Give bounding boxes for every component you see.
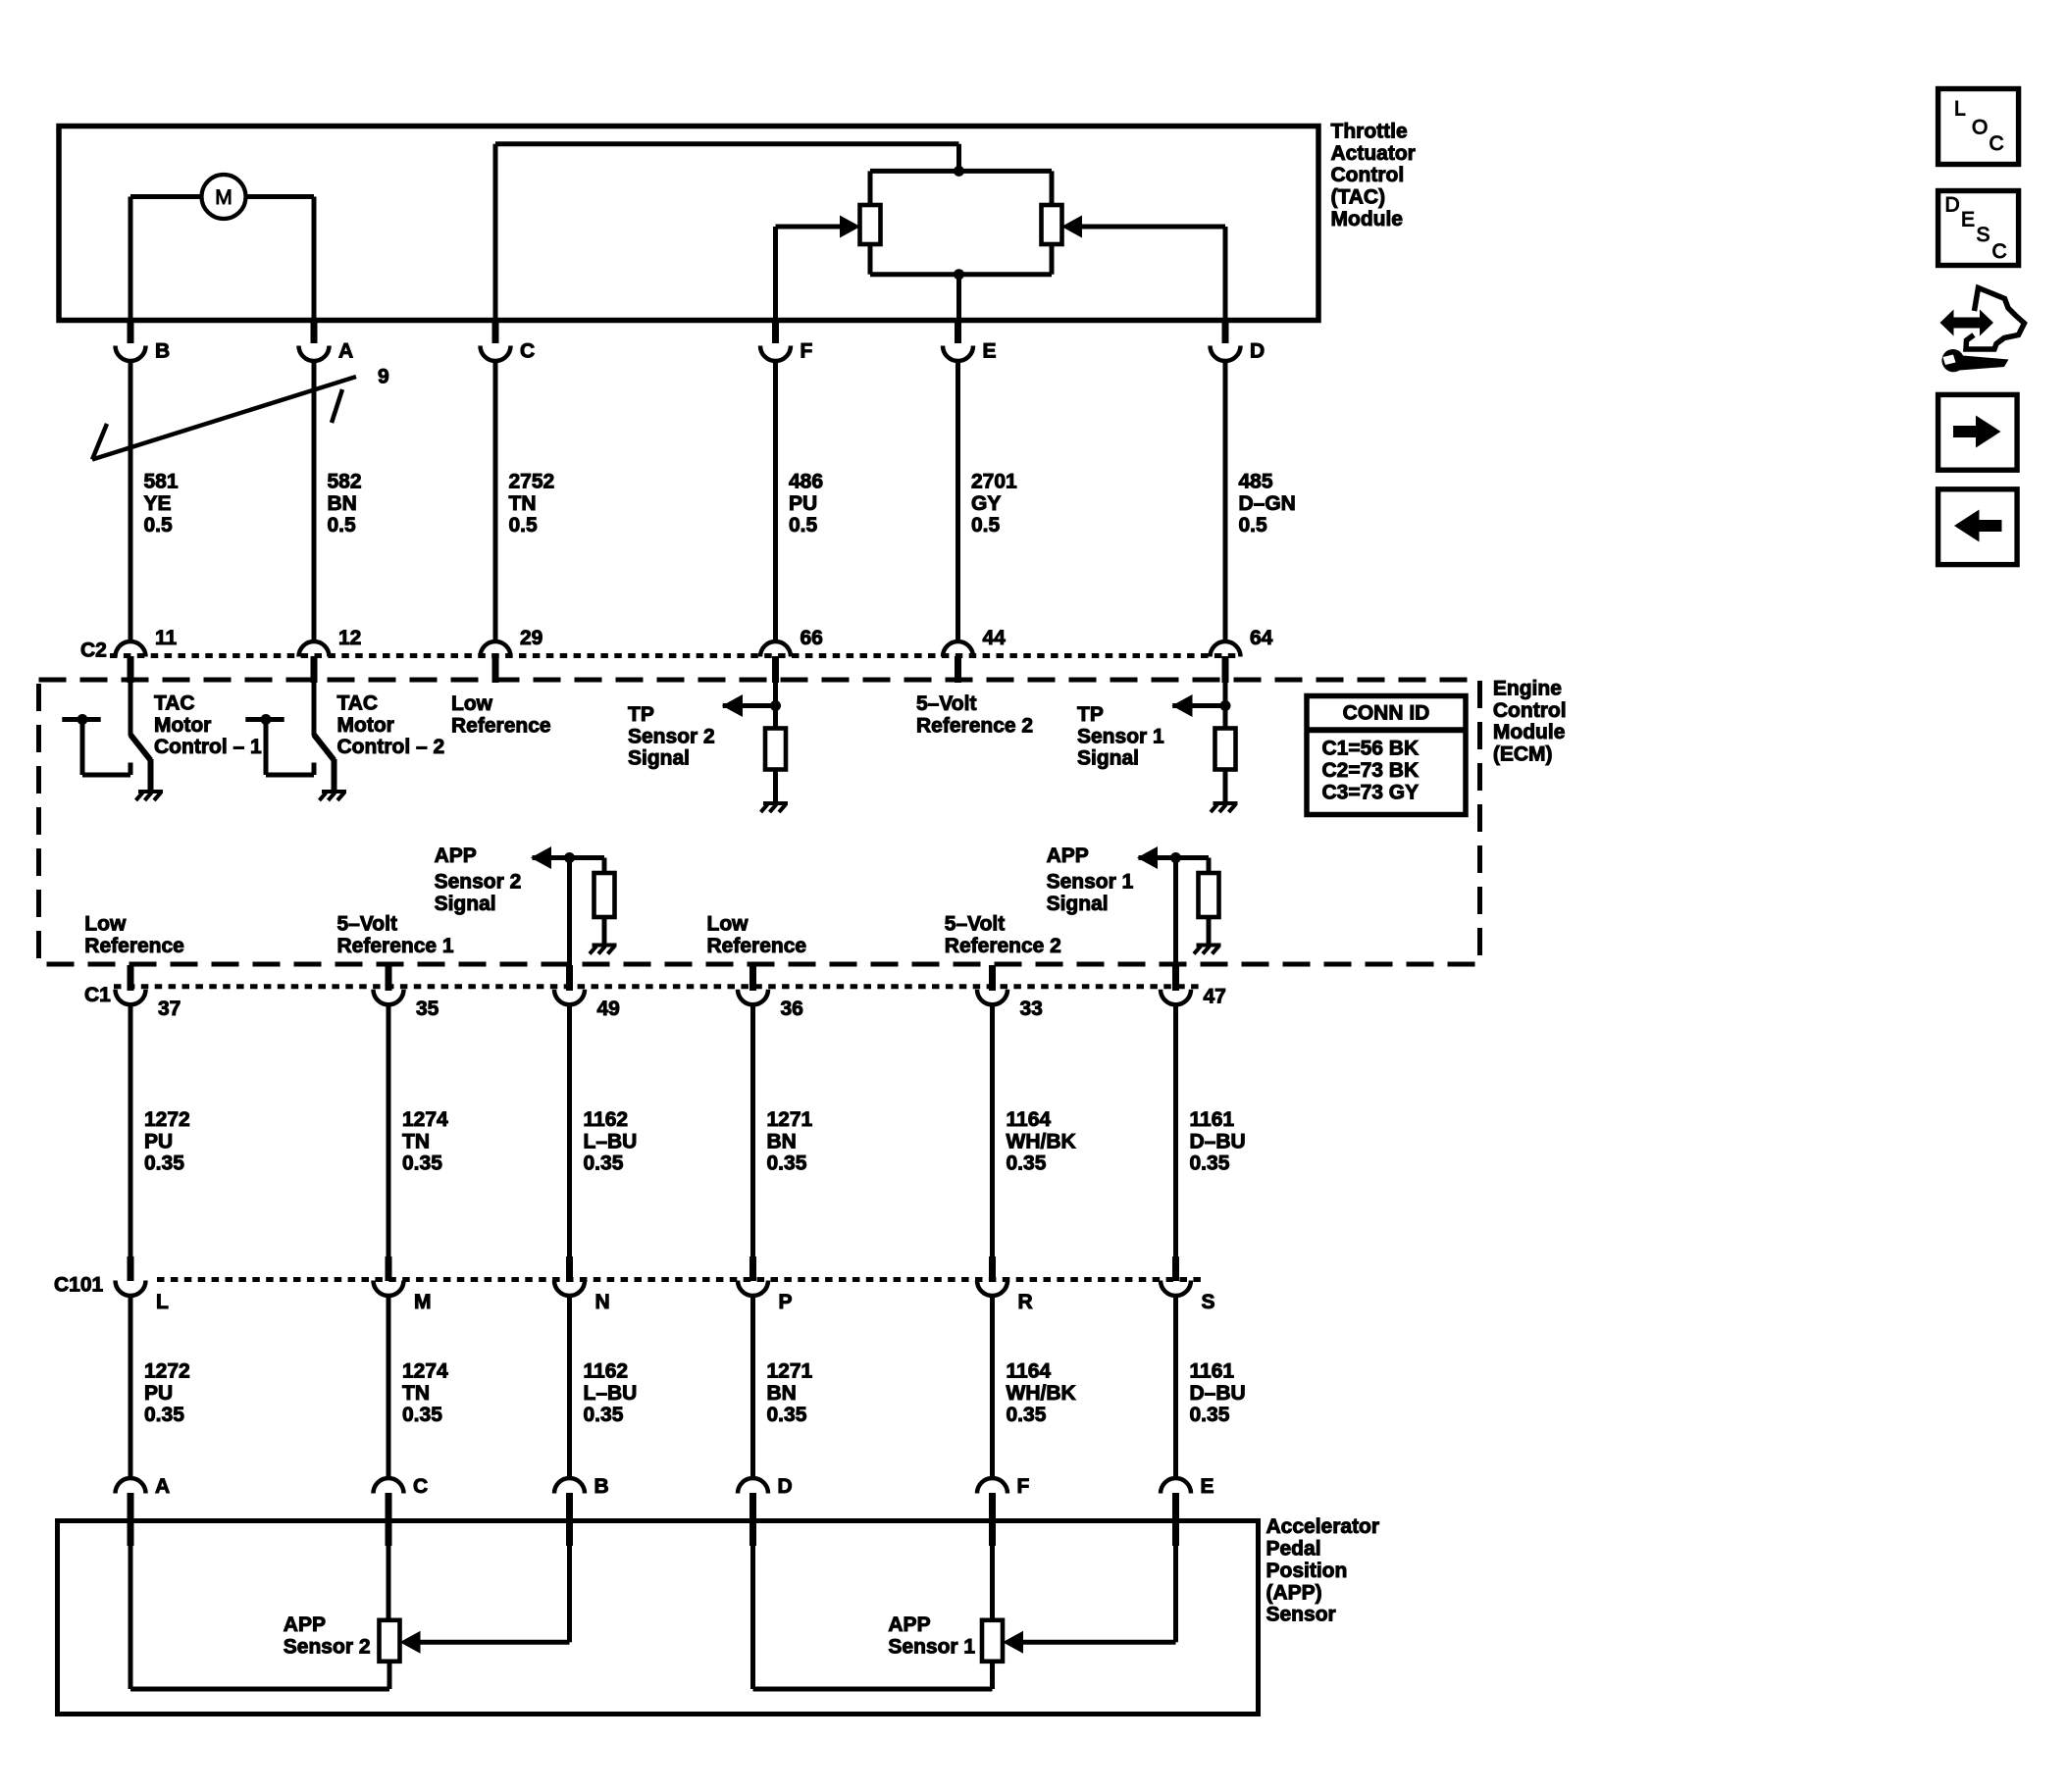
motor M (TAC motor)	[202, 175, 246, 219]
connector line C2	[110, 653, 1239, 658]
node: TP sensor bottom junction	[954, 269, 964, 280]
connector pin 12 (ECM C2)	[299, 627, 362, 683]
wire 485 D to ECM	[1223, 360, 1228, 642]
arrow: APP Sensor 1 wiper	[1003, 1631, 1023, 1654]
connector pin L (C101)	[116, 1256, 170, 1313]
wire: resistor to ground	[1223, 770, 1228, 804]
svg-text:C1=56 BKC2=73 BKC3=73 GY: C1=56 BKC2=73 BKC3=73 GY	[1322, 738, 1420, 804]
resistor: APP Sensor 1 pull-up	[1199, 873, 1219, 917]
wire 582 A to ECM	[312, 360, 317, 642]
svg-text:11: 11	[155, 627, 178, 649]
icon: fullsize view (wrench with arrows)	[1940, 288, 2025, 373]
wire: APP Sensor 1 wiper with arrow	[1023, 1545, 1176, 1642]
svg-text:B: B	[594, 1475, 609, 1498]
svg-text:A: A	[155, 1475, 170, 1498]
svg-text:S: S	[1202, 1291, 1215, 1313]
driver switch: TAC motor control 2	[245, 681, 334, 792]
resistor: APP Sensor 1 potentiometer	[982, 1545, 1003, 1662]
connector pin E (TAC module)	[943, 322, 997, 363]
connector pin N (C101)	[554, 1256, 610, 1313]
wire: APP Sensor 2 wiper with arrow	[421, 1545, 570, 1642]
wire: APP Sensor 2 signal branch	[533, 858, 605, 972]
wire 1162 C101-N to APP sensor pin B	[567, 1295, 572, 1478]
connector pin B (APP sensor)	[554, 1475, 609, 1546]
wire: TP sensor 1 wiper (pin D) with arrow	[1061, 216, 1225, 321]
connector pin 44 (ECM C2)	[943, 627, 1006, 683]
wire 1272 C1-37 to C101-L	[129, 1003, 133, 1257]
svg-text:49: 49	[597, 998, 620, 1020]
connector pin 47 (ECM C1)	[1161, 965, 1226, 1008]
svg-text:F: F	[801, 340, 813, 363]
svg-text:E: E	[1961, 209, 1975, 231]
svg-text:F: F	[1017, 1475, 1030, 1498]
connector pin D (TAC module)	[1211, 322, 1265, 363]
wire: pin C low reference riser	[495, 144, 959, 321]
ground (APP Sensor 2)	[590, 946, 617, 954]
wire 1161 C101-S to APP sensor pin E	[1173, 1295, 1178, 1478]
arrow: TP Sensor 2 signal	[722, 694, 743, 717]
svg-text:O: O	[1972, 117, 1988, 139]
svg-text:66: 66	[801, 627, 823, 649]
connector pin 35 (ECM C1)	[374, 965, 439, 1020]
wire 1164 C101-R to APP sensor pin F	[990, 1295, 995, 1478]
svg-text:47: 47	[1204, 986, 1226, 1008]
connector pin A (APP sensor)	[116, 1475, 171, 1546]
svg-text:64: 64	[1250, 627, 1273, 649]
connector pin 49 (ECM C1)	[554, 965, 620, 1020]
connector pin 66 (ECM C2)	[760, 627, 823, 683]
wire 1164 C1-33 to C101-R	[990, 1003, 995, 1257]
callout 9 (harness)	[92, 366, 389, 460]
ground (APP Sensor 1)	[1194, 946, 1221, 954]
connector pin 36 (ECM C1)	[738, 965, 803, 1020]
svg-text:C: C	[520, 340, 535, 363]
wire: APP Sensor 1 signal branch	[1139, 858, 1210, 972]
resistor: TP sensor 1 element	[1042, 171, 1062, 274]
svg-text:R: R	[1018, 1291, 1033, 1313]
wire 1271 C1-36 to C101-P	[750, 1003, 755, 1257]
connector pin 33 (ECM C1)	[977, 965, 1043, 1020]
svg-text:12: 12	[338, 627, 361, 649]
node: TP sensor top junction	[954, 166, 964, 177]
wire 1271 C101-P to APP sensor pin D	[750, 1295, 755, 1478]
svg-text:M: M	[215, 186, 232, 209]
connector pin S (C101)	[1161, 1256, 1215, 1313]
svg-text:44: 44	[983, 627, 1007, 649]
svg-text:9: 9	[378, 366, 389, 388]
connector pin F (TAC module)	[760, 322, 813, 363]
icon: previous arrow button	[1938, 489, 2018, 565]
Engine Control Module (ECM) box	[39, 680, 1480, 964]
resistor: APP Sensor 2 pull-up	[594, 873, 615, 917]
connector pin C (APP sensor)	[374, 1475, 429, 1546]
svg-text:S: S	[1977, 224, 1990, 246]
arrow: APP Sensor 2 wiper	[400, 1631, 421, 1654]
svg-text:P: P	[779, 1291, 793, 1313]
resistor: TP Sensor 2 pull-down	[765, 729, 786, 770]
svg-text:M: M	[414, 1291, 432, 1313]
svg-text:N: N	[595, 1291, 610, 1313]
CONN ID table	[1307, 696, 1466, 815]
wire: TP Sensor 1 signal into ECM	[1172, 681, 1225, 729]
svg-text:36: 36	[781, 998, 803, 1020]
svg-text:33: 33	[1020, 998, 1043, 1020]
connector pin B (TAC module)	[116, 322, 171, 363]
connector pin E (APP sensor)	[1161, 1475, 1214, 1546]
wire 2752 C to ECM	[493, 360, 498, 642]
svg-text:CONN ID: CONN ID	[1343, 701, 1430, 724]
svg-text:C: C	[413, 1475, 428, 1498]
wire 581 B to ECM	[129, 360, 133, 642]
wire 1162 C1-49 to C101-N	[567, 1003, 572, 1257]
connector line C101	[157, 1277, 1201, 1282]
connector pin A (TAC module)	[299, 322, 354, 363]
wire 1161 C1-47 to C101-S	[1173, 1003, 1178, 1257]
wire: TP Sensor 2 signal into ECM	[723, 681, 776, 729]
svg-text:E: E	[1201, 1475, 1214, 1498]
wire: pin E from bottom junction	[956, 275, 961, 321]
wire 1274 C1-35 to C101-M	[387, 1003, 391, 1257]
svg-text:C1: C1	[84, 984, 111, 1006]
wire 1272 C101-L to APP sensor pin A	[129, 1295, 133, 1478]
wire: resistor to ground	[602, 917, 607, 946]
wire: motor to pin A	[244, 197, 314, 321]
ground (TAC motor control 1)	[136, 792, 164, 800]
resistor: APP Sensor 2 potentiometer	[380, 1545, 400, 1662]
ground (TAC motor control 2)	[320, 792, 347, 800]
TP sensor network top rail	[870, 169, 1052, 174]
svg-text:C2: C2	[80, 640, 107, 662]
wire: APP Sensor 1 low side rail	[753, 1545, 993, 1689]
connector pin D (APP sensor)	[738, 1475, 793, 1546]
svg-text:C: C	[1992, 240, 2007, 263]
icon: next arrow button	[1938, 394, 2018, 470]
driver switch: TAC motor control 1	[62, 681, 150, 792]
arrow: APP Sensor 1 signal	[1137, 846, 1158, 869]
svg-text:C: C	[1989, 132, 2004, 155]
svg-text:29: 29	[520, 627, 542, 649]
svg-text:D: D	[1945, 194, 1960, 217]
connector pin 29 (ECM C2)	[481, 627, 543, 683]
connector pin F (APP sensor)	[977, 1475, 1030, 1546]
svg-text:L: L	[156, 1291, 169, 1313]
arrow: TP Sensor 1 signal	[1172, 694, 1193, 717]
connector pin M (C101)	[374, 1256, 432, 1313]
svg-text:ThrottleActuatorControl(TAC)Mo: ThrottleActuatorControl(TAC)Module	[1331, 121, 1416, 230]
connector line C1	[114, 984, 1201, 989]
wire: TP sensor 2 wiper (pin F) with arrow	[776, 216, 861, 321]
node: APP Sensor 1 junction	[1170, 852, 1181, 863]
wire: motor to pin B	[130, 197, 203, 321]
svg-text:E: E	[983, 340, 997, 363]
svg-text:L: L	[1954, 98, 1966, 121]
svg-text:B: B	[155, 340, 170, 363]
TP sensor network bottom rail	[870, 272, 1052, 277]
connector pin P (C101)	[738, 1256, 793, 1313]
resistor: TP sensor 2 element	[860, 171, 881, 274]
connector pin R (C101)	[977, 1256, 1033, 1313]
svg-text:D: D	[1250, 340, 1265, 363]
resistor: TP Sensor 1 pull-down	[1215, 729, 1236, 770]
connector pin 37 (ECM C1)	[116, 965, 181, 1020]
wire 2701 E to ECM	[956, 360, 960, 642]
svg-text:C101: C101	[54, 1274, 104, 1297]
node: TP Sensor 1 junction	[1220, 700, 1231, 711]
svg-text:37: 37	[158, 998, 181, 1020]
wire 486 F to ECM	[773, 360, 778, 642]
icon: DESC button	[1938, 191, 2019, 266]
Accelerator Pedal Position (APP) Sensor box	[58, 1521, 1259, 1715]
node: APP Sensor 2 junction	[564, 852, 575, 863]
connector pin C (TAC module)	[481, 322, 536, 363]
node: TP Sensor 2 junction	[770, 700, 781, 711]
arrow: APP Sensor 2 signal	[531, 846, 551, 869]
svg-text:D: D	[778, 1475, 793, 1498]
wire: resistor to ground	[1207, 917, 1212, 946]
connector pin 64 (ECM C2)	[1211, 627, 1273, 683]
Throttle Actuator Control (TAC) Module box	[59, 127, 1318, 321]
connector pin 11 (ECM C2)	[116, 627, 178, 683]
wire 1274 C101-M to APP sensor pin C	[387, 1295, 391, 1478]
ground (TP Sensor 2)	[761, 803, 789, 812]
svg-text:A: A	[338, 340, 353, 363]
svg-text:35: 35	[416, 998, 439, 1020]
wire: resistor to ground	[773, 770, 778, 804]
wire: APP Sensor 2 low side rail	[130, 1545, 389, 1689]
ground (TP Sensor 1)	[1211, 803, 1238, 812]
icon: LOC button	[1938, 89, 2019, 165]
